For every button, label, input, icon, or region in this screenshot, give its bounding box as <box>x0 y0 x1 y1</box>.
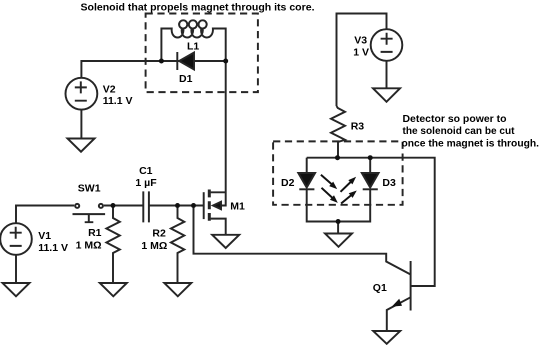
svg-text:11.1 V: 11.1 V <box>103 95 133 107</box>
svg-text:Q1: Q1 <box>373 282 387 294</box>
svg-text:Solenoid that propels magnet t: Solenoid that propels magnet through its… <box>81 2 315 14</box>
svg-text:SW1: SW1 <box>78 183 101 195</box>
svg-text:R3: R3 <box>351 121 365 133</box>
svg-text:11.1 V: 11.1 V <box>38 242 68 254</box>
svg-text:R2: R2 <box>152 228 166 240</box>
svg-text:M1: M1 <box>230 201 245 213</box>
svg-text:the solenoid can be cut: the solenoid can be cut <box>403 125 515 137</box>
svg-text:V2: V2 <box>103 84 116 96</box>
svg-text:C1: C1 <box>139 165 153 177</box>
svg-text:V1: V1 <box>38 230 51 242</box>
svg-text:1 MΩ: 1 MΩ <box>76 240 102 252</box>
svg-text:D1: D1 <box>179 73 193 85</box>
svg-text:D2: D2 <box>281 177 295 189</box>
svg-text:1 MΩ: 1 MΩ <box>141 240 167 252</box>
svg-text:D3: D3 <box>382 177 396 189</box>
svg-text:V3: V3 <box>354 35 367 47</box>
svg-text:1 µF: 1 µF <box>135 177 157 189</box>
svg-text:once the magnet is through.: once the magnet is through. <box>402 137 540 149</box>
svg-text:R1: R1 <box>88 227 102 239</box>
svg-text:L1: L1 <box>187 41 199 53</box>
svg-text:Detector so power to: Detector so power to <box>403 113 507 125</box>
svg-text:1 V: 1 V <box>353 47 369 59</box>
